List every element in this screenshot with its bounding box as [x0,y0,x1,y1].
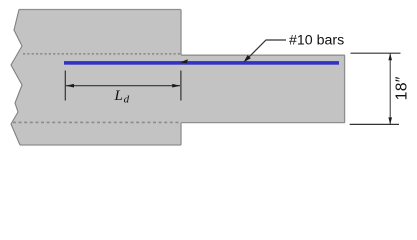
18 in bottom arrowhead [388,117,392,124]
18 in top arrowhead [388,53,392,60]
hidden beam top edge (dashed through column) [23,53,181,55]
beam (gray, 18 in deep) [180,55,346,123]
critical-section arrowhead at column face on bar [180,59,188,63]
Ld right arrowhead [172,84,180,88]
18 in dimension: top extension line [351,52,401,54]
svg-text:#10 bars: #10 bars [289,33,344,49]
leader arrowhead [244,55,251,62]
18 in dimension: bottom extension line [350,123,399,125]
Ld left arrowhead [66,84,74,88]
column (gray support block with break line) [11,10,181,146]
Ld dimension: left extension line (at bar end) [64,71,66,101]
18 in dimension line [389,53,391,124]
svg-text:L: L [114,88,123,104]
Ld dimension line [66,85,180,87]
hidden beam bottom edge (dashed through column) [13,121,181,123]
leader line to "#10 bars" [246,40,287,61]
svg-text:d: d [124,94,130,106]
svg-text:18″: 18″ [393,76,410,100]
Ld dimension: right extension line (at column face) [180,71,182,101]
break line (zigzag left edge of column) [11,10,22,146]
rebar (#10 bars, blue) [64,61,339,65]
